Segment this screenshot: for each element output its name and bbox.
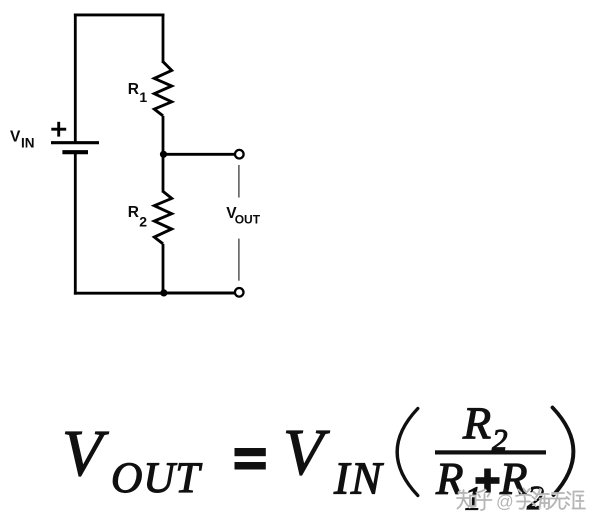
terminal: V_OUT negative (open circle) xyxy=(235,288,244,297)
measurement line: V_OUT upper thin lead xyxy=(238,165,240,198)
battery + polarity mark xyxy=(51,122,66,137)
wire: left vertical from top wire down to battery positive plate xyxy=(74,14,77,143)
terminal: V_OUT positive (open circle) xyxy=(235,150,244,159)
label V_IN xyxy=(10,129,35,151)
formula: denominator plus sign xyxy=(476,469,500,493)
svg-text:IN: IN xyxy=(333,453,384,504)
svg-text:V: V xyxy=(283,416,330,489)
watermark: text 涯 xyxy=(566,492,586,510)
battery V_IN negative plate (short) xyxy=(62,150,88,154)
svg-text:R: R xyxy=(435,454,464,504)
svg-text:1: 1 xyxy=(139,89,147,105)
svg-text:2: 2 xyxy=(139,214,147,230)
wire: node B to bottom output terminal xyxy=(163,292,234,295)
svg-text:V: V xyxy=(10,129,21,146)
svg-text:OUT: OUT xyxy=(111,454,202,502)
resistor R2 xyxy=(154,191,171,243)
formula: right parenthesis xyxy=(553,408,574,496)
label V_OUT xyxy=(226,205,261,226)
svg-text:R: R xyxy=(128,81,139,98)
formula: equals sign xyxy=(235,448,266,470)
battery V_IN positive plate (long) xyxy=(51,141,99,144)
watermark: text 知 xyxy=(457,490,476,509)
svg-text:V: V xyxy=(62,417,109,490)
wire: right vertical from top wire to R1 top xyxy=(162,14,165,64)
watermark: text 海 xyxy=(532,489,550,510)
svg-text:R: R xyxy=(462,398,491,449)
wire: left vertical from battery negative plate down to bottom wire xyxy=(74,152,77,294)
label R2 xyxy=(128,204,147,230)
wire: node A to R2 top xyxy=(162,154,165,192)
svg-text:@: @ xyxy=(496,492,514,512)
watermark: text 无 xyxy=(551,493,567,510)
svg-text:R: R xyxy=(128,204,139,221)
resistor R1 xyxy=(154,62,171,116)
node A junction dot xyxy=(160,151,167,158)
watermark: text 学 xyxy=(516,489,532,510)
wire: bottom horizontal from battery branch to node B xyxy=(74,292,164,295)
formula: left parenthesis xyxy=(397,409,418,496)
node B junction dot xyxy=(160,289,167,296)
wire: R2 bottom to bottom wire xyxy=(162,244,165,295)
wire: R1 bottom to node A xyxy=(162,116,165,155)
label R1 xyxy=(128,81,148,105)
svg-text:OUT: OUT xyxy=(235,212,261,226)
svg-text:IN: IN xyxy=(21,135,35,150)
wire: top horizontal from battery branch to resistor branch xyxy=(74,13,164,16)
watermark: text 乎 xyxy=(477,490,493,511)
formula: fraction bar xyxy=(435,450,546,454)
measurement line: V_OUT lower thin lead xyxy=(238,239,240,281)
watermark: @ sign xyxy=(496,492,515,513)
wire: node A to top output terminal xyxy=(163,153,235,156)
